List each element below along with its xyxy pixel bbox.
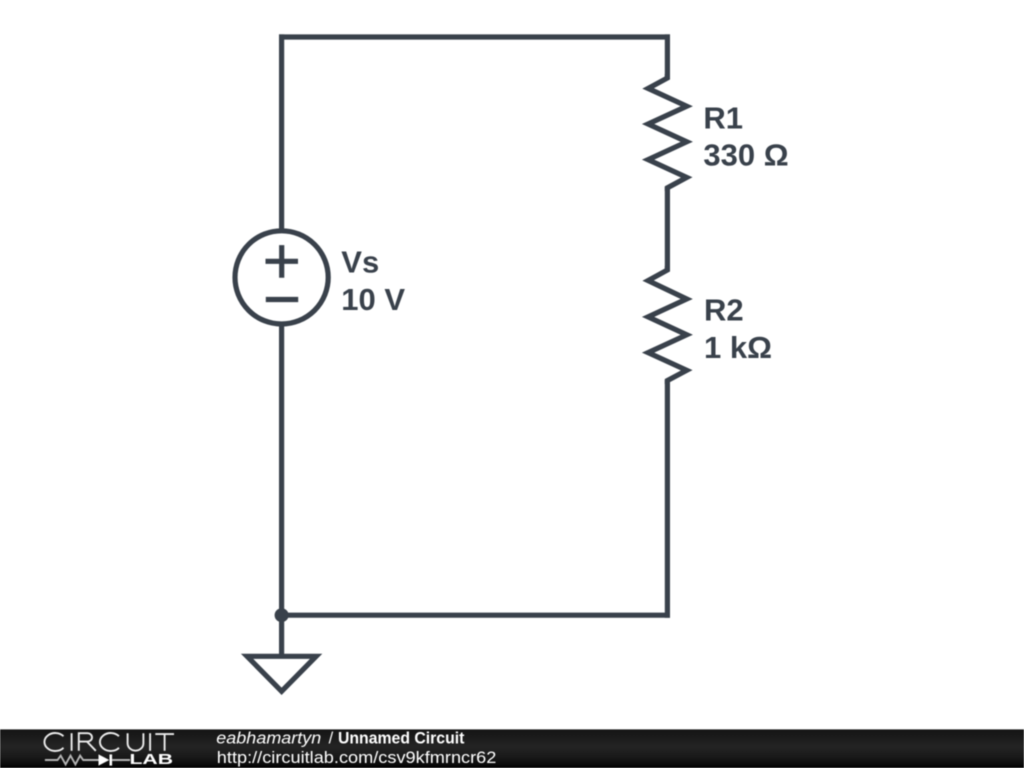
wire right middle <box>665 187 670 271</box>
svg-text:http://circuitlab.com/csv9kfmr: http://circuitlab.com/csv9kfmrncr62 <box>217 749 497 767</box>
svg-text:LAB: LAB <box>130 751 174 768</box>
footer bar <box>0 729 1024 768</box>
wire left upper <box>279 34 284 230</box>
minus sign of Vs <box>266 297 298 302</box>
svg-text:1 kΩ: 1 kΩ <box>704 330 772 365</box>
footer logo resistor-diode glyph <box>45 754 130 765</box>
svg-text:/: / <box>329 730 334 748</box>
wire top <box>279 34 670 39</box>
ground symbol <box>247 656 316 691</box>
wire right upper <box>665 34 670 78</box>
wire bottom <box>279 613 670 618</box>
resistor R1 <box>648 74 687 191</box>
voltage source Vs <box>235 231 328 324</box>
svg-text:Unnamed Circuit: Unnamed Circuit <box>338 730 465 748</box>
svg-text:R1: R1 <box>703 101 743 136</box>
svg-text:Vs: Vs <box>341 245 379 280</box>
resistor R2 <box>648 266 687 384</box>
footer logo CIRCUIT wordmark <box>44 733 174 751</box>
plus sign of Vs <box>266 245 299 278</box>
svg-text:eabhamartyn: eabhamartyn <box>216 730 321 748</box>
wire right lower <box>665 380 670 618</box>
svg-text:R2: R2 <box>704 292 744 327</box>
wire left lower <box>279 324 284 656</box>
node junction dot <box>275 608 289 622</box>
svg-text:10 V: 10 V <box>341 282 405 317</box>
svg-text:330 Ω: 330 Ω <box>703 137 788 172</box>
